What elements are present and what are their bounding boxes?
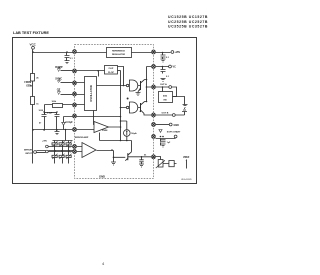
svg-text:REFERENCE: REFERENCE [112,51,125,53]
svg-text:CT: CT [57,89,61,92]
svg-text:OSCILLATOR: OSCILLATOR [89,85,93,102]
svg-text:VCC: VCC [30,43,37,47]
svg-text:VC: VC [173,66,177,69]
svg-text:GND: GND [99,174,105,178]
svg-text:OUT B: OUT B [162,112,169,114]
svg-text:SOFT-START: SOFT-START [167,131,181,134]
svg-text:LAB TEST FIXTURE: LAB TEST FIXTURE [13,31,49,35]
svg-text:VREF: VREF [183,156,190,159]
svg-text:ERROR: ERROR [24,149,32,151]
svg-text:UDG-92029: UDG-92029 [181,179,193,181]
svg-text:UC3525B UC3527B: UC3525B UC3527B [168,25,208,29]
svg-text:+VIN: +VIN [175,51,181,54]
svg-text:GND: GND [174,124,180,127]
svg-text:FROM: FROM [24,82,31,84]
svg-text:PWM: PWM [102,130,108,132]
svg-text:ERROR AMP: ERROR AMP [75,136,89,139]
svg-text:FLIP: FLIP [109,68,114,70]
svg-text:RAMP: RAMP [55,66,63,69]
svg-text:OUT A: OUT A [160,83,167,86]
svg-text:SYNC: SYNC [55,78,62,81]
svg-text:+VIN: +VIN [42,141,47,143]
svg-text:50µA: 50µA [131,132,137,135]
svg-text:GEN: GEN [26,85,31,87]
svg-text:INPUT: INPUT [25,153,32,155]
svg-text:FLOP: FLOP [108,72,114,74]
svg-text:REGULATOR: REGULATOR [112,53,125,56]
svg-text:50Ω: 50Ω [163,96,167,98]
svg-text:UC1525B UC1527B: UC1525B UC1527B [168,15,208,19]
svg-text:UC2525B UC2527B: UC2525B UC2527B [168,20,208,24]
svg-text:0.1µF: 0.1µF [47,113,53,115]
svg-text:0.01µF: 0.01µF [66,122,74,124]
